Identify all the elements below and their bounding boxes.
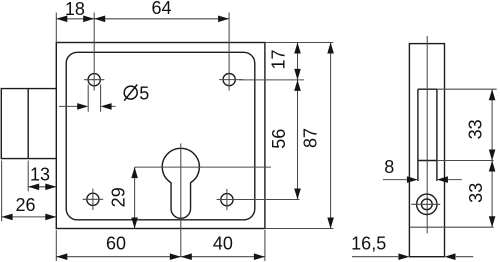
arrow 40 left (181, 253, 192, 260)
arrow 8 left (407, 176, 418, 183)
hole bottom-left (87, 193, 99, 205)
arrow 64 left (94, 16, 105, 23)
extension line bolt left (1, 161, 3, 222)
side view outer body (409, 44, 444, 257)
bottom holes extension line (217, 199, 300, 201)
hole top-right (223, 74, 235, 86)
extension line hole col right (228, 13, 230, 91)
top holes extension right (239, 79, 304, 81)
hole top-left (88, 74, 100, 86)
dimension line 60/40 (56, 256, 265, 258)
dimension line 13 (28, 186, 56, 188)
side view hole crosshair (411, 203, 440, 205)
extension line plate left edge top (55, 13, 57, 43)
bottom edge extension right (265, 228, 334, 230)
slot bottom extension right (437, 160, 494, 162)
arrow 18 left (56, 16, 67, 23)
dimension line 17 (297, 43, 299, 80)
svg-text:33: 33 (466, 183, 486, 203)
svg-text:26: 26 (15, 195, 35, 215)
dimension line 33 top and bottom (491, 89, 493, 227)
arrow 17 up (294, 43, 301, 54)
svg-text:13: 13 (30, 164, 50, 184)
svg-text:60: 60 (106, 234, 126, 254)
extension line bolt mid (27, 161, 29, 192)
side view slot bottom edge (418, 160, 437, 162)
label 29 (109, 187, 129, 207)
dimension 16,5 leaders (352, 256, 473, 258)
dimension line 18/64 (56, 18, 229, 20)
svg-text:56: 56 (269, 129, 289, 149)
front view inner case contour (66, 52, 255, 220)
label 87 (301, 128, 321, 148)
extension line plate left bottom (55, 230, 57, 261)
side view lower hidden line (409, 226, 493, 228)
label 33 top (466, 119, 486, 139)
svg-text:17: 17 (269, 49, 289, 69)
crosshair hole top-left (84, 79, 104, 81)
side view slot top edge (418, 88, 437, 90)
keyhole vertical center line (180, 143, 182, 256)
arrow d5 left (77, 103, 88, 110)
dimension line 26 (2, 216, 57, 218)
arrow d5 right (101, 103, 112, 110)
arrow 18 right (83, 16, 94, 23)
label 56 (269, 129, 289, 149)
arrow 26 left (2, 214, 13, 221)
extension line hole col left (93, 13, 95, 91)
svg-text:40: 40 (213, 234, 233, 254)
svg-text:29: 29 (109, 187, 129, 207)
side view hole inner (421, 199, 432, 210)
arrow 33 bottom up (489, 161, 496, 172)
arrow 56 up (294, 80, 301, 91)
arrow 26 right (45, 214, 56, 221)
arrow 16,5 right (445, 253, 456, 260)
arrow 8 right (437, 176, 448, 183)
arrow 60 left (56, 253, 67, 260)
svg-text:87: 87 (301, 128, 321, 148)
label 33 bottom (466, 183, 486, 203)
arrow 29 down (131, 218, 138, 229)
arrow 33 bottom down (489, 216, 496, 227)
dimension line 56 (297, 80, 299, 200)
arrow 29 up (131, 167, 138, 178)
side view bolt slot left line (417, 89, 419, 181)
bolt (1, 89, 56, 159)
arrow 56 down (294, 189, 301, 200)
arrow 17 down (294, 69, 301, 80)
svg-text:8: 8 (384, 157, 394, 177)
arrow 33 top down (489, 150, 496, 161)
dimension 8 leaders (383, 179, 462, 181)
svg-text:16,5: 16,5 (351, 234, 386, 254)
arrow 60 right (170, 253, 181, 260)
top edge extension right (265, 42, 334, 44)
bolt step line (27, 89, 29, 159)
label diameter symbol (124, 85, 137, 101)
crosshair hole bottom-left (83, 189, 104, 210)
side view center line (426, 36, 428, 233)
keyhole horizontal center line / 29 extension (135, 166, 271, 168)
crosshair hole bottom-right (226, 189, 228, 210)
diameter 5 leaders (59, 105, 116, 107)
arrow 87 up (327, 43, 334, 54)
arrow 33 top up (489, 89, 496, 100)
front view outer plate (56, 43, 265, 229)
svg-text:64: 64 (151, 0, 171, 18)
dimension line 87 (330, 43, 332, 229)
slot top extension right (437, 88, 497, 90)
arrow 40 right (254, 253, 265, 260)
arrow 16,5 left (398, 253, 409, 260)
diameter 5 extension lines (88, 85, 100, 112)
svg-text:5: 5 (139, 83, 149, 103)
arrow 87 down (327, 218, 334, 229)
svg-text:18: 18 (65, 0, 85, 19)
label 17 (269, 49, 289, 69)
crosshair hole top-right (219, 79, 243, 81)
arrow 13 left (28, 184, 39, 191)
arrow 64 right (218, 16, 229, 23)
dimension line 29 (134, 167, 136, 228)
side view bolt slot right line (436, 89, 438, 181)
keyhole (162, 148, 199, 218)
extension line plate right bottom (264, 230, 266, 261)
side view hole outer (417, 194, 437, 214)
arrow 13 right (45, 184, 56, 191)
hole bottom-right (221, 194, 233, 206)
svg-text:33: 33 (466, 119, 486, 139)
